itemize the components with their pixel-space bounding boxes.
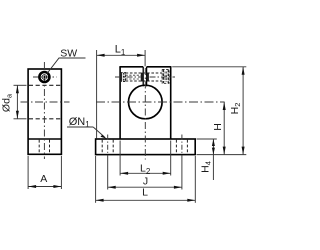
dimension A arrow left (28, 185, 36, 188)
dimension H2 arrow bottom (242, 147, 245, 155)
clamp screw head inner vertical bar left (163, 70, 165, 84)
dimension d_a arrow down (16, 111, 19, 119)
flange right hole centerline (181, 135, 183, 159)
left view flange top edge (28, 138, 61, 140)
screw SW socket circle (42, 75, 47, 80)
svg-text:Øda: Øda (1, 93, 14, 112)
svg-text:H2: H2 (229, 103, 242, 115)
right view flange outline (96, 139, 196, 155)
svg-text:L2: L2 (140, 163, 151, 176)
svg-text:A: A (40, 173, 47, 185)
dimension L1 line (97, 54, 146, 56)
flange right hole hidden line right (186, 140, 188, 154)
left view body outline (28, 69, 61, 154)
dimension L2 line (120, 172, 171, 174)
right view top edge left of slot (119, 66, 143, 68)
label N1 arrowhead (101, 135, 107, 139)
left view flange hole hidden line left (38, 140, 40, 154)
right view body right edge (170, 67, 172, 139)
dimension A arrow right (53, 185, 61, 188)
dimension L arrow right (187, 199, 195, 202)
right view bore horizontal centerline (96, 101, 225, 103)
label N1 shelf line (67, 126, 93, 128)
dimension L2 arrow left (120, 172, 128, 175)
dimension J extension left (107, 159, 109, 190)
flange left hole hidden line left (101, 140, 103, 154)
dimension L2 extension left (119, 141, 121, 176)
left view bore hidden line top (29, 84, 61, 86)
svg-text:H: H (212, 123, 224, 131)
right view vertical centerline (144, 68, 146, 160)
svg-text:L1: L1 (115, 44, 126, 57)
dimension H2 line (242, 67, 244, 155)
dimension d_a extension line bottom (14, 118, 27, 120)
clamp screw washer block right of slot (147, 73, 149, 82)
slot right line (146, 67, 148, 87)
flange left hole centerline (107, 135, 109, 159)
flange left hole hidden line right (112, 140, 114, 154)
clamp screw thread engagement block (121, 73, 126, 82)
clamp screw thread minor line bottom (126, 78, 143, 80)
dimension H4 arrow down (212, 148, 215, 155)
dimension L arrow left (96, 199, 104, 202)
dimension H4 bottom extension (shared with H H2) (197, 154, 247, 156)
screw SW head outer circle (39, 71, 51, 83)
dimension L extension left (95, 156, 97, 203)
dimension L2 extension right (170, 141, 172, 176)
dimension H2 arrow top (242, 67, 245, 75)
bore circle (129, 85, 163, 119)
left view screw horizontal centerline (33, 76, 57, 78)
svg-text:H4: H4 (199, 161, 212, 173)
dimension J extension right (181, 159, 183, 190)
clamp screw head outline (162, 69, 169, 83)
clamp screw socket lines (164, 72, 166, 83)
slot left line (142, 67, 144, 87)
left view vertical centerline (43, 62, 45, 159)
dimension H2 top extension (172, 66, 246, 68)
left view bore hidden line bottom (29, 118, 61, 120)
svg-text:L: L (142, 186, 148, 198)
dimension L1 extension left (96, 50, 98, 139)
clamp screw washer block left of slot (141, 73, 143, 82)
clamp screw shaft hidden line bottom (126, 80, 163, 82)
dimension L1 arrow right (137, 54, 145, 57)
screw SW center dot (43, 76, 45, 78)
dimension L extension right (194, 156, 196, 203)
dimension A line (28, 186, 61, 188)
dimension A extension line left (27, 156, 29, 189)
dimension H arrow top (223, 102, 226, 110)
label SW leader line (47, 58, 86, 74)
dimension H4 line (212, 139, 214, 180)
clamp screw head inner vertical bar right (167, 70, 169, 84)
dimension J arrow left (108, 186, 116, 189)
right view top edge right of slot (147, 66, 172, 68)
dimension L1 extension right (144, 50, 146, 66)
dimension H line (223, 102, 225, 155)
label N1 leader line (93, 127, 104, 137)
dimension d_a arrow up (16, 85, 19, 93)
dimension d_a line (16, 85, 18, 119)
dimension H4 top extension (197, 138, 217, 140)
dimension J line (108, 186, 182, 188)
dimension L line (96, 199, 196, 201)
dimension H4 arrow up (212, 139, 215, 146)
left view flange hole hidden line right (49, 140, 51, 154)
clamp screw shaft hidden line top (126, 72, 163, 74)
left view bore horizontal centerline (21, 101, 70, 103)
svg-text:SW: SW (60, 48, 77, 60)
screw SW head annulus ring (40, 72, 50, 82)
right view body left edge (119, 67, 121, 139)
clamp screw thread minor line top (126, 74, 143, 76)
dimension A extension line right (60, 156, 62, 189)
flange right hole hidden line left (175, 140, 177, 154)
dimension H arrow bottom (223, 147, 226, 155)
dimension d_a extension line top (14, 84, 27, 86)
dimension L1 arrow left (97, 54, 105, 57)
dimension L2 arrow right (163, 172, 171, 175)
dimension J arrow right (174, 186, 182, 189)
clamp screw centerline (115, 76, 175, 78)
